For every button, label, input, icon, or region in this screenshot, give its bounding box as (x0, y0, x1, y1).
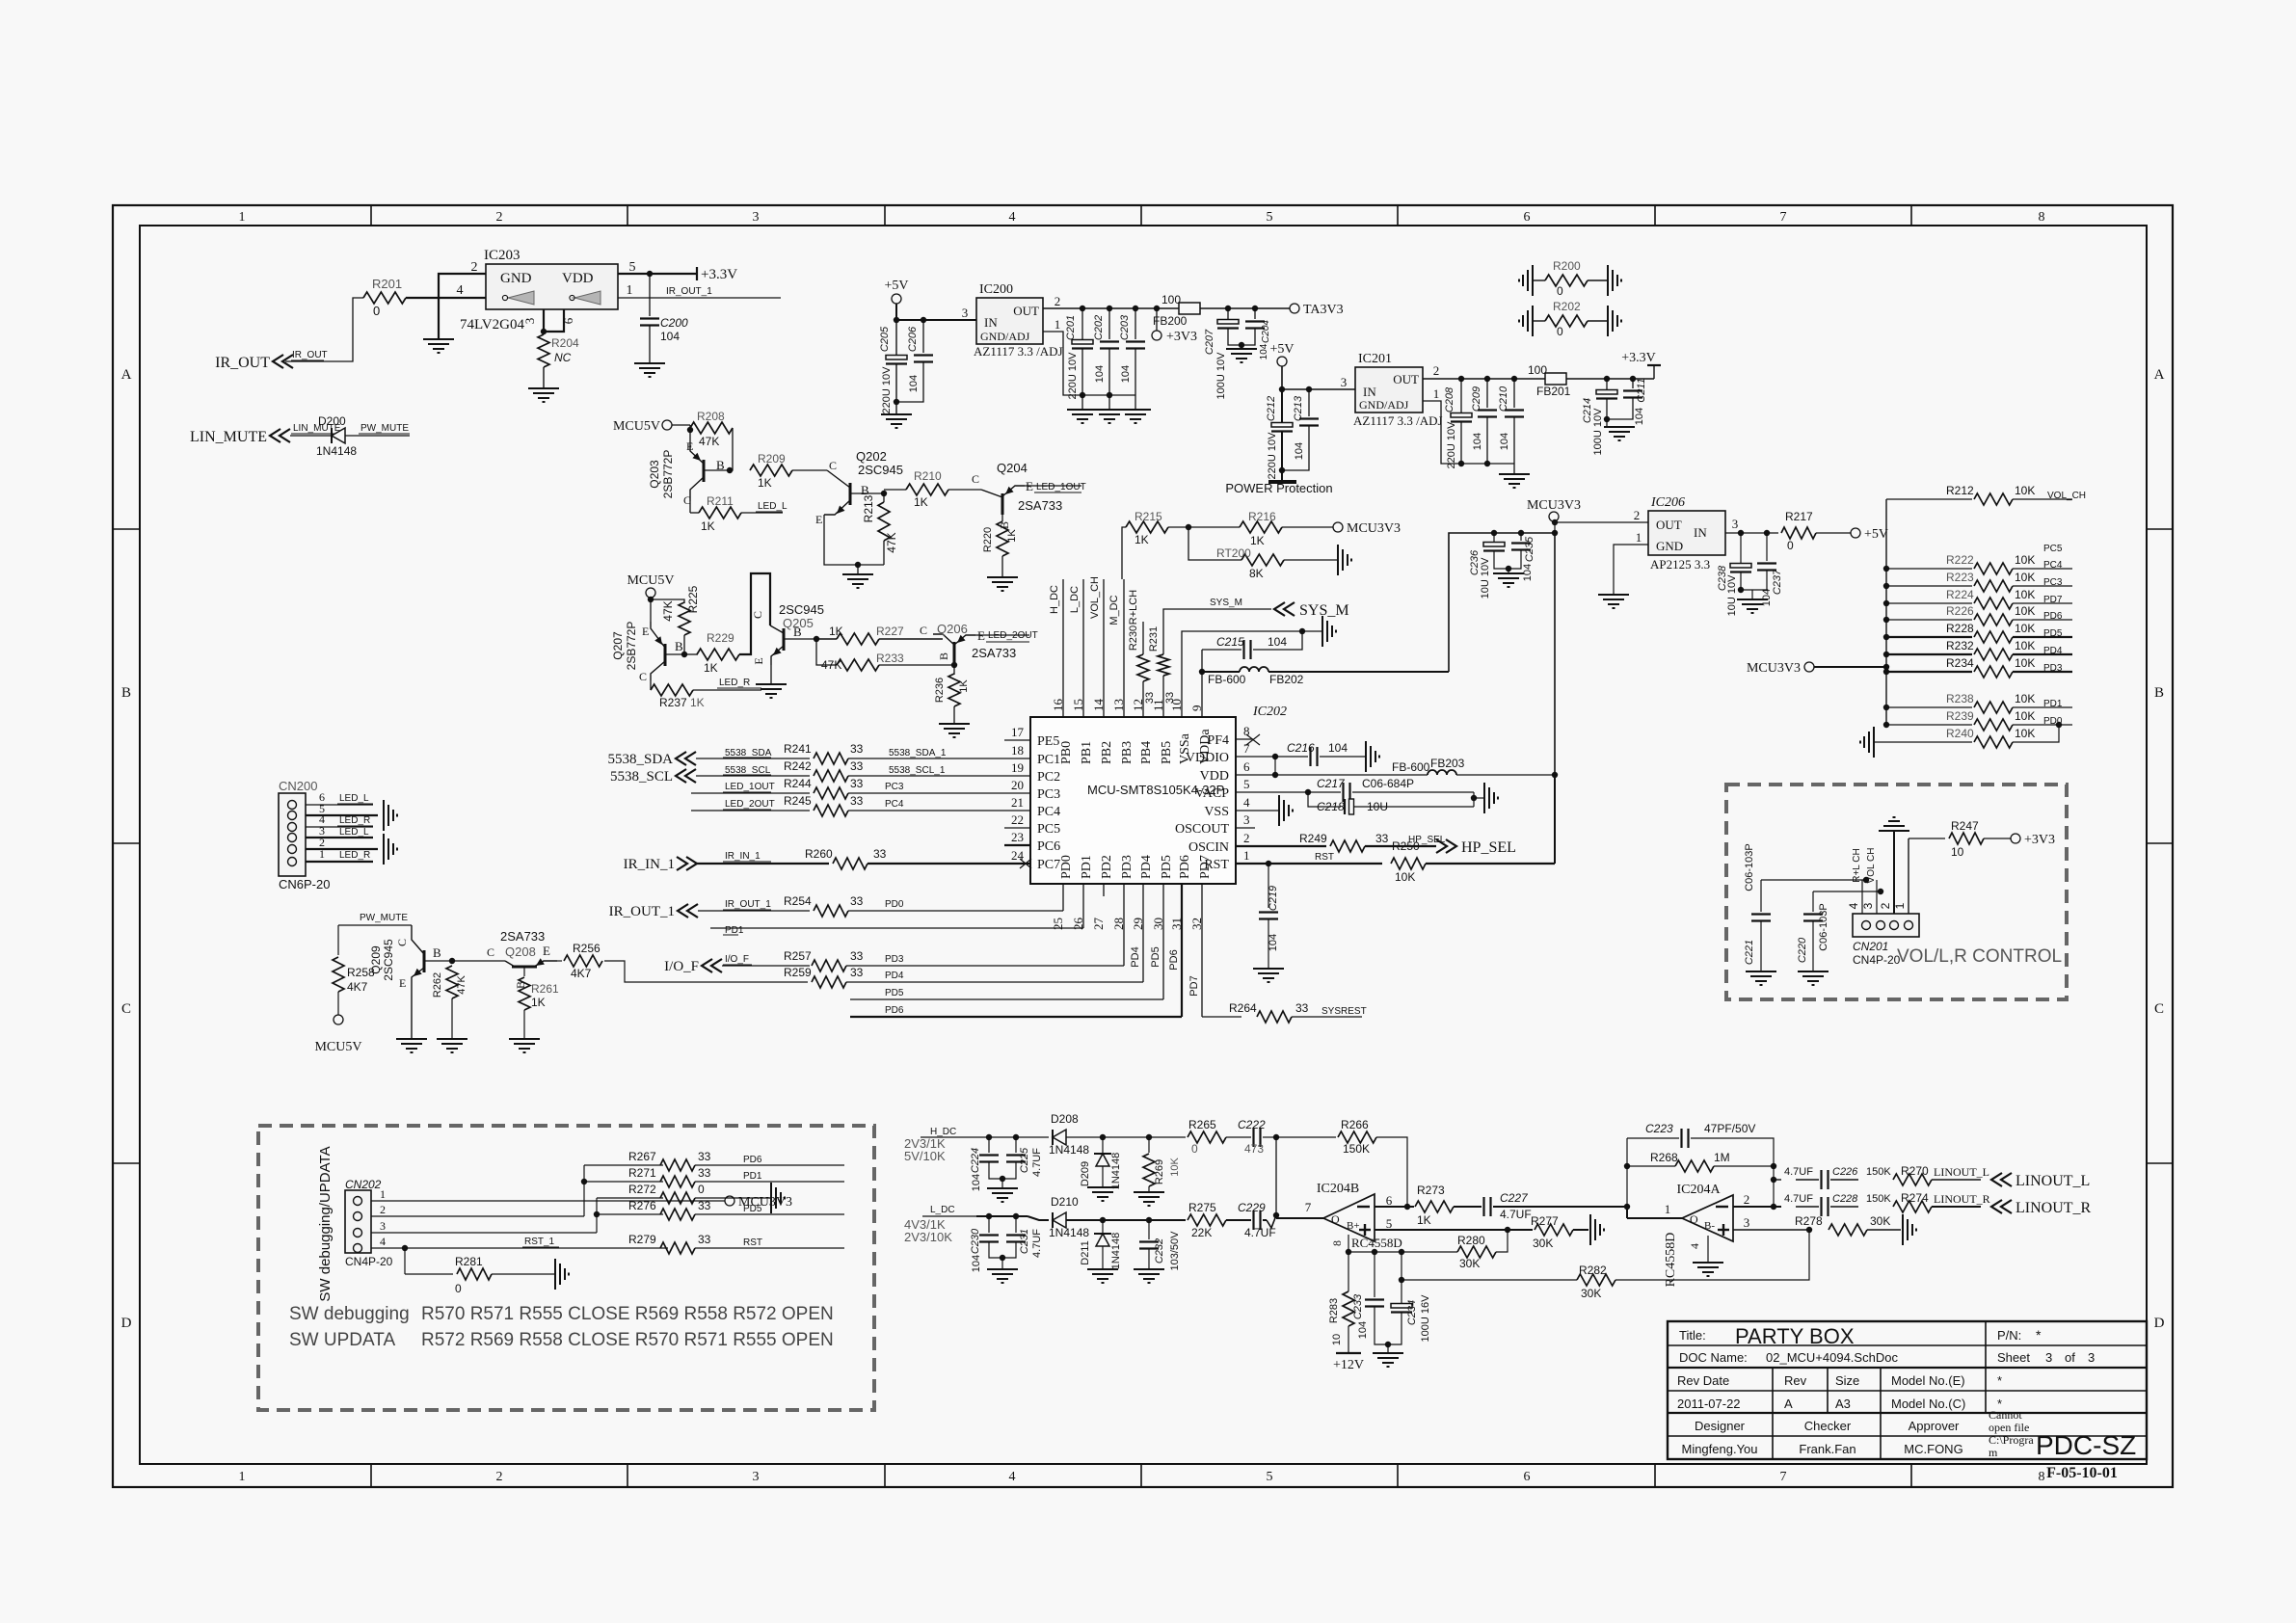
wire RT200 to ground (1284, 559, 1338, 561)
svg-text:C206: C206 (907, 326, 919, 352)
wire R233 to Q206 base (879, 664, 954, 666)
diode D211 1N4148 (1102, 1220, 1104, 1234)
ground right of R277 (1589, 1214, 1591, 1245)
svg-text:1: 1 (627, 283, 633, 298)
svg-text:3: 3 (1243, 812, 1250, 827)
svg-text:VACP: VACP (1194, 786, 1229, 801)
wire R268 to pin2 node (1773, 1166, 1775, 1207)
resistor R261 1K (523, 967, 525, 976)
svg-text:PW_MUTE: PW_MUTE (360, 423, 409, 434)
svg-text:10K: 10K (2015, 604, 2035, 618)
svg-text:10K: 10K (2015, 622, 2035, 635)
wire IC204B pin6 (1375, 1206, 1414, 1208)
resistor R264 33 SYSREST (1202, 1016, 1241, 1018)
resistor R234 10K PD3 (1883, 669, 1889, 675)
svg-text:8K: 8K (1249, 567, 1264, 580)
capacitor C210 104 (1513, 379, 1515, 408)
wire pin3 riser to R272/R276 (596, 1198, 598, 1233)
wire C208 bottom (1460, 422, 1462, 464)
capacitor C219 104 (1268, 864, 1269, 908)
svg-text:0: 0 (1557, 325, 1563, 338)
svg-text:33: 33 (850, 777, 864, 790)
wire pin2 riser to R267/R271 (583, 1165, 585, 1216)
resistor R208 (689, 428, 691, 430)
svg-text:1: 1 (319, 847, 325, 861)
svg-text:PD4: PD4 (1130, 946, 1141, 967)
svg-text:VDDa: VDDa (1198, 729, 1213, 764)
svg-text:4: 4 (1243, 795, 1250, 810)
svg-text:R275: R275 (1188, 1201, 1216, 1214)
svg-text:Checker: Checker (1804, 1419, 1852, 1433)
svg-text:220U 10V: 220U 10V (1067, 352, 1079, 400)
svg-text:1: 1 (380, 1187, 386, 1201)
svg-text:R280: R280 (1457, 1234, 1485, 1247)
power +3.3V at FB201 (1653, 365, 1655, 379)
power +12V below R283 (1348, 1326, 1349, 1353)
svg-text:10K: 10K (2015, 588, 2035, 601)
resistor R215 (1126, 521, 1168, 533)
svg-text:150K: 150K (1866, 1166, 1891, 1178)
svg-text:5: 5 (1386, 1216, 1393, 1231)
wire R201 to IC203 pin4 (406, 297, 486, 299)
resistor R204 NC (538, 334, 549, 367)
svg-text:R247: R247 (1951, 819, 1979, 833)
svg-text:4.7UF: 4.7UF (1784, 1193, 1813, 1205)
svg-text:LED_1OUT: LED_1OUT (725, 782, 775, 792)
svg-text:+5V: +5V (1864, 527, 1888, 542)
svg-text:1: 1 (1433, 386, 1440, 401)
wire C222 junction to pin7 node (1275, 1137, 1277, 1215)
node Q203 base (704, 469, 730, 471)
wire MCU5V to R208 (672, 424, 690, 426)
svg-text:1K: 1K (758, 476, 772, 490)
svg-text:VSSa: VSSa (1178, 732, 1192, 764)
wire R209 to Q202 collector (792, 469, 827, 471)
wire R215 to R216 (1168, 526, 1240, 528)
svg-text:GND/ADJ: GND/ADJ (1359, 398, 1409, 412)
svg-text:33: 33 (1295, 1001, 1309, 1015)
svg-text:PD2: PD2 (1100, 855, 1114, 879)
svg-text:R225: R225 (686, 585, 700, 613)
capacitor C203 104 (1135, 308, 1136, 339)
wire C224 C225 bottoms (989, 1162, 1016, 1179)
capacitor C212 220U 10V (1281, 389, 1283, 422)
net arrow HP_SEL (1446, 839, 1456, 853)
svg-text:R570 R571 R555 CLOSE R569 R558: R570 R571 R555 CLOSE R569 R558 R572 OPEN (421, 1304, 834, 1324)
svg-text:PC5: PC5 (2043, 544, 2063, 554)
wire IR_IN_1 row (697, 863, 829, 865)
pin 4 CN200 LED_R (306, 826, 373, 828)
wire R233 branch (816, 639, 837, 665)
wire D210 out (1066, 1219, 1186, 1221)
svg-text:104: 104 (1268, 635, 1287, 649)
svg-text:I/O_F: I/O_F (725, 954, 749, 965)
svg-text:IC204A: IC204A (1676, 1183, 1721, 1197)
svg-text:02_MCU+4094.SchDoc: 02_MCU+4094.SchDoc (1766, 1350, 1898, 1365)
svg-text:R204: R204 (551, 336, 579, 350)
pin 1 CN200 LED_R (306, 861, 373, 863)
svg-text:3: 3 (1732, 517, 1739, 531)
svg-text:5538_SCL_1: 5538_SCL_1 (889, 765, 946, 776)
resistor R226 10K PD6 (1883, 617, 1889, 623)
svg-text:4: 4 (1688, 1243, 1701, 1249)
wire R231 to SYS_M (1163, 609, 1271, 654)
svg-text:6: 6 (1386, 1193, 1393, 1208)
svg-text:0: 0 (455, 1282, 462, 1295)
svg-text:MCU3V3: MCU3V3 (1527, 498, 1581, 513)
capacitor C216 104 (1236, 756, 1275, 758)
svg-text:RST_1: RST_1 (524, 1237, 555, 1247)
svg-text:1: 1 (1055, 317, 1061, 332)
svg-text:3: 3 (1341, 375, 1348, 389)
resistor R239 10K PD0 (1883, 722, 1889, 728)
svg-text:R229: R229 (707, 631, 734, 645)
svg-text:R202: R202 (1553, 300, 1581, 313)
ground below R236 (953, 706, 955, 724)
wire R237 to LED_R (693, 689, 761, 691)
wire B+ rail (1348, 1251, 1457, 1253)
svg-text:OSCIN: OSCIN (1188, 840, 1229, 855)
pin 1 output IC204A (1627, 1217, 1682, 1219)
ground below C200 (649, 326, 651, 363)
svg-text:2V3/10K: 2V3/10K (904, 1230, 952, 1244)
svg-text:104: 104 (1268, 934, 1279, 951)
svg-text:0: 0 (1191, 1142, 1198, 1156)
resistor R213 (883, 493, 885, 502)
svg-text:27: 27 (1091, 918, 1106, 931)
svg-text:C229: C229 (1238, 1201, 1266, 1214)
transistor Q208 2SA733 (512, 966, 537, 969)
svg-text:2011-07-22: 2011-07-22 (1677, 1397, 1741, 1411)
svg-text:R276: R276 (628, 1199, 656, 1212)
svg-text:3: 3 (753, 210, 760, 225)
ground right of R281 (554, 1259, 556, 1290)
capacitor C201 220U 10V (1081, 308, 1083, 339)
svg-text:Model No.(E): Model No.(E) (1891, 1373, 1965, 1388)
svg-text:47PF/50V: 47PF/50V (1704, 1122, 1755, 1135)
svg-text:1K: 1K (690, 696, 705, 709)
svg-text:RC4558D: RC4558D (1351, 1236, 1402, 1250)
pin 3 OSCOUT stub (1236, 827, 1255, 829)
svg-text:Q204: Q204 (997, 461, 1028, 475)
svg-text:Q206: Q206 (937, 622, 968, 636)
wire D200 to PW_MUTE (345, 435, 410, 437)
svg-text:R272: R272 (628, 1183, 656, 1196)
wire R227 to Q206 collector (816, 638, 837, 640)
svg-text:7: 7 (1780, 1470, 1787, 1484)
resistor R228 10K PD5 (1883, 634, 1889, 640)
svg-text:R260: R260 (805, 847, 833, 861)
svg-text:R283: R283 (1328, 1298, 1340, 1323)
capacitor C233 104 (1374, 1252, 1375, 1297)
wire Q209 base node (424, 960, 452, 962)
svg-text:R217: R217 (1785, 510, 1813, 523)
wire pin1 node to R268/C223 (1626, 1138, 1628, 1207)
svg-text:R200: R200 (1553, 259, 1581, 273)
svg-text:R237: R237 (659, 696, 687, 709)
svg-text:0: 0 (1557, 284, 1563, 298)
svg-text:1: 1 (1243, 848, 1250, 863)
svg-text:23: 23 (1011, 830, 1024, 844)
capacitor C230 104 (988, 1216, 990, 1233)
svg-text:HP_SEL: HP_SEL (1461, 839, 1516, 856)
power tap +5V right of R217 (1851, 528, 1860, 538)
svg-text:PARTY BOX: PARTY BOX (1735, 1324, 1855, 1348)
wire RST row (1236, 863, 1382, 865)
capacitor C208 220U 10V (1460, 379, 1462, 412)
svg-text:2SA733: 2SA733 (1018, 498, 1062, 513)
svg-text:R216: R216 (1248, 510, 1276, 523)
svg-text:30K: 30K (1870, 1214, 1890, 1228)
svg-text:C: C (920, 624, 927, 637)
svg-text:IN: IN (984, 315, 998, 330)
svg-text:2: 2 (1433, 363, 1440, 378)
svg-text:A: A (1784, 1397, 1793, 1411)
svg-text:R211: R211 (707, 494, 734, 508)
svg-text:0: 0 (698, 1183, 705, 1196)
svg-text:PC3: PC3 (1037, 787, 1060, 802)
svg-text:47K: 47K (661, 600, 675, 621)
svg-text:33: 33 (850, 759, 864, 773)
svg-text:1M: 1M (1714, 1151, 1730, 1164)
svg-text:104: 104 (1472, 433, 1483, 450)
svg-text:R254: R254 (784, 894, 812, 908)
svg-text:4K7: 4K7 (347, 980, 368, 994)
pin 3 stub CN201 VOL_CH (1876, 891, 1878, 914)
svg-text:C: C (829, 459, 837, 472)
resistor R222 10K PC4 (1883, 566, 1889, 572)
svg-text:C203: C203 (1119, 314, 1131, 340)
svg-text:PD1: PD1 (725, 925, 744, 936)
svg-text:IN: IN (1694, 525, 1707, 540)
svg-text:C231: C231 (1019, 1229, 1030, 1254)
svg-text:POWER Protection: POWER Protection (1225, 481, 1332, 495)
svg-text:Designer: Designer (1695, 1419, 1746, 1433)
wire Q202 base (850, 492, 884, 494)
ground below C220 (1812, 921, 1814, 971)
svg-text:2SC945: 2SC945 (779, 602, 824, 617)
capacitor C229 4.7UF (1226, 1219, 1251, 1221)
svg-text:D210: D210 (1051, 1195, 1079, 1209)
svg-text:R264: R264 (1229, 1001, 1257, 1015)
svg-text:C218: C218 (1317, 800, 1345, 813)
svg-text:A: A (121, 367, 132, 383)
pin 24 no-connect cross (1020, 859, 1031, 868)
transistor Q202 2SC945 (849, 483, 852, 505)
svg-text:33: 33 (850, 966, 864, 979)
wire VACP row (1236, 791, 1308, 793)
svg-text:220U 10V: 220U 10V (1267, 432, 1278, 480)
svg-text:LED_R: LED_R (719, 678, 750, 688)
svg-text:10K: 10K (2015, 639, 2035, 652)
svg-text:PD6: PD6 (1168, 949, 1180, 970)
svg-text:R242: R242 (784, 759, 812, 773)
capacitor C234 100U 16V (1401, 1252, 1402, 1303)
wire C206 bottom (896, 362, 923, 402)
svg-text:1: 1 (239, 210, 246, 225)
svg-text:FB200: FB200 (1153, 314, 1188, 328)
IC203 74LV2G04 dual inverter (486, 264, 618, 309)
IC201 AZ1117 (1355, 367, 1423, 412)
svg-text:PC1: PC1 (1037, 753, 1060, 767)
svg-text:Mingfeng.You: Mingfeng.You (1681, 1442, 1757, 1456)
resistor R240 10K (1874, 741, 1972, 743)
svg-text:2SB772P: 2SB772P (661, 450, 675, 499)
ground below D209 (1102, 1166, 1104, 1187)
wire PD2 stub (1103, 884, 1105, 896)
wire C214 C211 bottoms (1607, 398, 1633, 419)
svg-text:RST: RST (1315, 852, 1334, 863)
svg-text:5: 5 (1243, 777, 1250, 791)
svg-text:R270: R270 (1901, 1164, 1929, 1178)
svg-text:IC203: IC203 (484, 248, 521, 263)
svg-text:LINOUT_L: LINOUT_L (2016, 1173, 2090, 1189)
svg-text:NC: NC (554, 351, 572, 364)
svg-text:PD4: PD4 (1139, 855, 1154, 879)
svg-text:of: of (2065, 1350, 2075, 1365)
svg-text:4K7: 4K7 (571, 967, 592, 980)
wire PD3 column (1123, 884, 1125, 966)
svg-text:0: 0 (373, 304, 380, 318)
svg-text:Size: Size (1835, 1373, 1859, 1388)
svg-text:open file: open file (1989, 1421, 2029, 1434)
svg-text:Q202: Q202 (856, 449, 887, 464)
svg-text:473: 473 (1244, 1142, 1264, 1156)
svg-text:R261: R261 (531, 982, 559, 996)
svg-text:R244: R244 (784, 777, 812, 790)
svg-text:R281: R281 (455, 1255, 483, 1268)
svg-text:LINOUT_L: LINOUT_L (1934, 1165, 1989, 1179)
capacitor C238 10U 10V (1740, 533, 1742, 563)
svg-text:8: 8 (2039, 1470, 2045, 1484)
svg-text:PD1: PD1 (1080, 855, 1094, 879)
svg-text:10K: 10K (2015, 571, 2035, 584)
svg-text:2SB772P: 2SB772P (625, 622, 638, 671)
svg-text:SYS_M: SYS_M (1299, 602, 1349, 619)
svg-text:LED_R: LED_R (339, 815, 370, 826)
wire VDDIO VDD link (1274, 757, 1276, 775)
wire C213 bottom (1282, 426, 1309, 470)
svg-text:4: 4 (380, 1235, 386, 1248)
svg-text:R234: R234 (1946, 656, 1974, 670)
svg-text:CN4P-20: CN4P-20 (1853, 953, 1901, 967)
svg-text:10: 10 (1331, 1334, 1343, 1345)
svg-text:H_DC: H_DC (1049, 585, 1060, 614)
svg-text:1K: 1K (1250, 534, 1265, 547)
svg-text:PB2: PB2 (1100, 741, 1114, 764)
svg-text:O: O (1331, 1212, 1340, 1226)
svg-text:18: 18 (1011, 743, 1024, 758)
svg-text:B-: B- (1704, 1220, 1715, 1232)
resistor R271 33 PD1 (584, 1181, 663, 1183)
svg-text:IC202: IC202 (1252, 705, 1287, 719)
svg-text:R262: R262 (432, 972, 443, 998)
ground below R220 (1001, 556, 1003, 577)
svg-text:PB1: PB1 (1080, 741, 1094, 764)
resistor R211 (690, 512, 699, 514)
ground left of R240 (1873, 727, 1875, 758)
ground below Q202 (857, 565, 859, 574)
svg-text:+3V3: +3V3 (2024, 833, 2055, 847)
svg-text:PD6: PD6 (1178, 855, 1192, 879)
svg-text:MCU5V: MCU5V (627, 573, 674, 588)
title block table (1668, 1321, 2147, 1459)
svg-text:IR_OUT_1: IR_OUT_1 (666, 286, 712, 297)
wire R210 wires (883, 490, 885, 493)
wire C210 bottom (1513, 417, 1515, 464)
svg-text:R230: R230 (1128, 625, 1139, 651)
svg-text:+3.3V: +3.3V (701, 267, 737, 282)
wire IC201 pin1 (1423, 401, 1514, 464)
wire PD7 column (1201, 884, 1203, 1017)
svg-text:104: 104 (660, 330, 680, 343)
svg-text:E: E (752, 657, 765, 664)
svg-text:33: 33 (850, 794, 864, 808)
svg-text:D209: D209 (1080, 1161, 1091, 1186)
ground right of CN200 pin5 (383, 800, 385, 831)
svg-text:LINOUT_R: LINOUT_R (1934, 1192, 1990, 1206)
svg-text:O: O (1690, 1212, 1698, 1226)
svg-text:PB5: PB5 (1160, 741, 1174, 764)
svg-text:2SA733: 2SA733 (500, 929, 545, 944)
svg-text:2SC945: 2SC945 (382, 939, 395, 981)
diode D210 1N4148 (1052, 1212, 1054, 1228)
resistor R262 47K (451, 961, 453, 964)
svg-text:LED_L: LED_L (339, 827, 369, 838)
svg-text:PC4: PC4 (1037, 805, 1060, 819)
svg-text:C06-103P: C06-103P (1744, 843, 1755, 891)
svg-text:5V/10K: 5V/10K (904, 1149, 946, 1163)
svg-text:OSCOUT: OSCOUT (1175, 822, 1229, 837)
resistor R283 10 (1348, 1252, 1349, 1291)
svg-text:7: 7 (1305, 1200, 1312, 1214)
ground bar POWER Protection (1268, 480, 1296, 484)
svg-text:AZ1117 3.3 /ADJ: AZ1117 3.3 /ADJ (1353, 413, 1443, 428)
diode D209 1N4148 (1102, 1137, 1104, 1154)
svg-text:C212: C212 (1266, 396, 1277, 421)
svg-text:104: 104 (1634, 408, 1645, 425)
pin 8 no-connect cross (1246, 734, 1260, 745)
svg-text:C: C (639, 670, 647, 683)
svg-text:104: 104 (971, 1174, 982, 1191)
wire C226 row (1774, 1179, 1781, 1181)
svg-text:2: 2 (1879, 902, 1892, 909)
resistor R236 (953, 665, 955, 675)
resistor R237 (651, 684, 693, 696)
svg-text:GND: GND (1656, 539, 1683, 553)
svg-text:R+LCH: R+LCH (1128, 590, 1139, 625)
wire IC203 pin2 gnd branch (439, 274, 486, 298)
svg-text:RST: RST (743, 1237, 762, 1248)
svg-text:100U 10V: 100U 10V (1215, 352, 1227, 400)
svg-text:R215: R215 (1135, 510, 1162, 523)
svg-text:C217: C217 (1317, 777, 1346, 790)
svg-text:F-05-10-01: F-05-10-01 (2046, 1465, 2118, 1481)
svg-text:RT200: RT200 (1216, 546, 1251, 560)
svg-text:R239: R239 (1946, 709, 1974, 723)
svg-text:150K: 150K (1866, 1193, 1891, 1205)
svg-text:C219: C219 (1268, 886, 1279, 911)
svg-text:33: 33 (698, 1233, 711, 1246)
svg-text:OUT: OUT (1393, 372, 1419, 386)
capacitor C202 104 (1108, 308, 1110, 339)
ground at IC203 pin2 (438, 298, 440, 339)
svg-text:5538_SDA_1: 5538_SDA_1 (889, 748, 947, 758)
svg-text:Frank.Fan: Frank.Fan (1799, 1442, 1855, 1456)
wire PD6 column (1181, 884, 1183, 1017)
svg-text:PD7: PD7 (1198, 855, 1213, 879)
svg-text:PC4: PC4 (885, 799, 904, 810)
